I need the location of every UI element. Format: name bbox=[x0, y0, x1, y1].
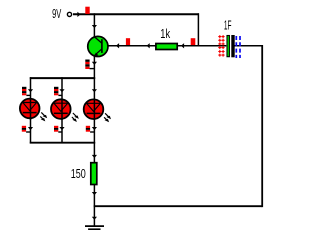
svg-text:1k: 1k bbox=[160, 27, 170, 41]
svg-text:150: 150 bbox=[71, 167, 86, 181]
svg-text:9V: 9V bbox=[52, 7, 62, 21]
svg-text:1F: 1F bbox=[224, 18, 232, 32]
